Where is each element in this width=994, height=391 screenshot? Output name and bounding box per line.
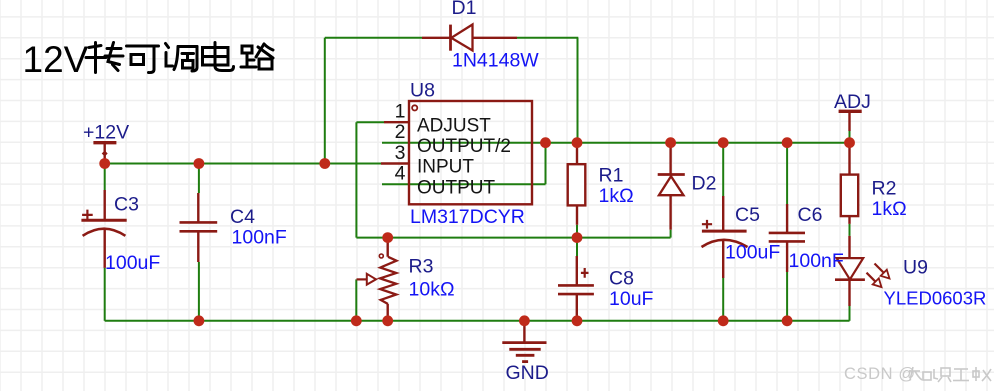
svg-text:1kΩ: 1kΩ	[599, 185, 634, 207]
svg-text:GND: GND	[506, 362, 549, 384]
svg-text:D1: D1	[452, 0, 477, 19]
svg-text:C6: C6	[798, 204, 823, 226]
svg-text:C4: C4	[230, 206, 255, 228]
svg-text:D2: D2	[692, 173, 717, 195]
svg-text:ADJ: ADJ	[834, 91, 871, 113]
svg-text:2: 2	[395, 121, 406, 143]
svg-text:1kΩ: 1kΩ	[872, 198, 907, 220]
svg-text:OUTPUT: OUTPUT	[417, 177, 496, 198]
svg-text:U8: U8	[410, 80, 435, 102]
svg-text:C3: C3	[114, 194, 139, 216]
svg-text:3: 3	[395, 142, 406, 164]
svg-text:U9: U9	[903, 257, 928, 279]
svg-text:1N4148W: 1N4148W	[452, 49, 539, 71]
svg-text:10kΩ: 10kΩ	[409, 279, 455, 301]
svg-text:100uF: 100uF	[725, 241, 780, 263]
svg-text:LM317DCYR: LM317DCYR	[410, 206, 525, 228]
svg-text:100nF: 100nF	[789, 250, 844, 272]
svg-text:OUTPUT/2: OUTPUT/2	[417, 136, 511, 157]
svg-text:12V: 12V	[23, 39, 89, 80]
svg-text:INPUT: INPUT	[417, 157, 474, 178]
svg-text:10uF: 10uF	[609, 288, 654, 310]
svg-text:1: 1	[395, 101, 406, 123]
svg-text:ADJUST: ADJUST	[417, 115, 491, 136]
svg-text:+12V: +12V	[83, 122, 129, 144]
svg-text:100nF: 100nF	[232, 227, 287, 249]
svg-text:R3: R3	[409, 256, 434, 278]
svg-text:100uF: 100uF	[105, 252, 160, 274]
svg-text:YLED0603R: YLED0603R	[884, 288, 987, 309]
svg-text:C8: C8	[609, 268, 634, 290]
svg-text:4: 4	[395, 163, 406, 185]
svg-text:CSDN @: CSDN @	[844, 365, 916, 383]
svg-text:R2: R2	[872, 178, 897, 200]
svg-text:C5: C5	[735, 204, 760, 226]
svg-text:R1: R1	[599, 165, 624, 187]
